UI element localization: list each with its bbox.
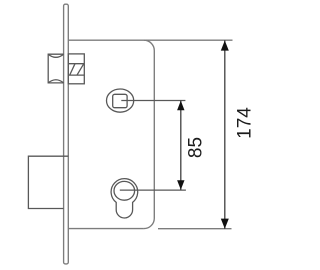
svg-text:85: 85 (185, 137, 206, 158)
svg-text:174: 174 (235, 107, 256, 139)
